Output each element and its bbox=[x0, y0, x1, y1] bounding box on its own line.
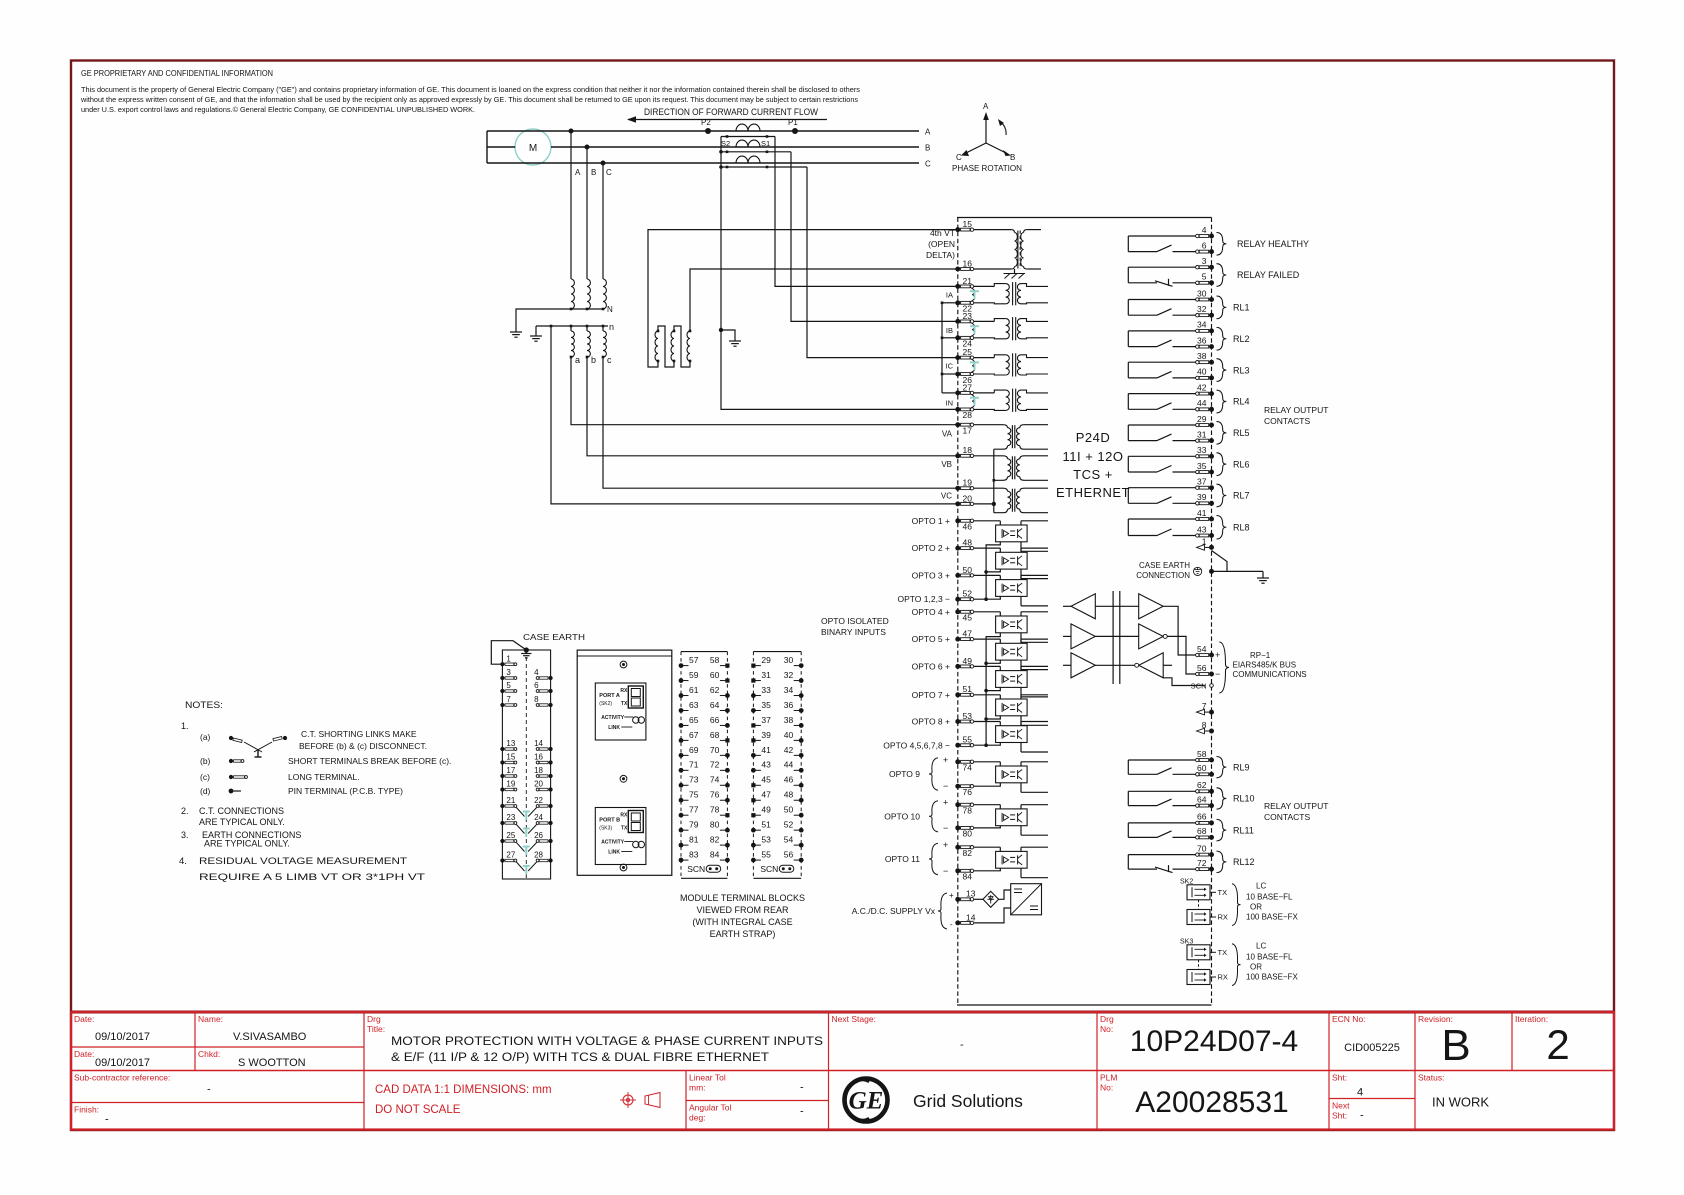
wire opto common stub bbox=[986, 660, 1000, 663]
TB3 terminal 73 bbox=[679, 783, 684, 788]
TB1 terminal 21 bbox=[500, 804, 504, 808]
svg-text:(a): (a) bbox=[200, 732, 211, 742]
node bus C junction bbox=[601, 161, 606, 166]
wire b to terminal 18 bbox=[587, 357, 956, 456]
svg-text:OPTO 3 +: OPTO 3 + bbox=[912, 570, 950, 580]
svg-text:RESIDUAL VOLTAGE MEASUREMENT: RESIDUAL VOLTAGE MEASUREMENT bbox=[199, 856, 407, 867]
wire phase C drop bbox=[602, 163, 604, 279]
opto coupler U8 bbox=[996, 726, 1028, 743]
opto coupler U9 bbox=[996, 766, 1028, 783]
svg-text:6: 6 bbox=[534, 681, 539, 690]
relay contact RELAY HEALTHY bbox=[1128, 235, 1197, 237]
svg-text:TX: TX bbox=[621, 826, 628, 832]
svg-text:57: 57 bbox=[689, 655, 699, 665]
TB3 terminal 78 bbox=[725, 813, 729, 817]
wire n to terminal 20 bbox=[551, 326, 956, 504]
svg-text:A: A bbox=[983, 102, 989, 111]
svg-text:RL4: RL4 bbox=[1233, 397, 1250, 407]
svg-text:1: 1 bbox=[1202, 536, 1207, 546]
svg-text:CASE EARTH: CASE EARTH bbox=[1139, 561, 1190, 570]
svg-text:68: 68 bbox=[1197, 826, 1207, 836]
svg-text:58: 58 bbox=[710, 655, 720, 665]
svg-text:84: 84 bbox=[963, 872, 973, 882]
case earth node bbox=[524, 647, 529, 652]
label RL2 bbox=[1217, 327, 1227, 350]
svg-text:MODULE TERMINAL BLOCKS: MODULE TERMINAL BLOCKS bbox=[680, 893, 805, 903]
svg-text:RL3: RL3 bbox=[1233, 365, 1250, 375]
svg-text:IC: IC bbox=[946, 362, 954, 371]
terminal 29 bbox=[1209, 423, 1214, 428]
svg-text:39: 39 bbox=[761, 730, 771, 740]
relay contact RELAY FAILED bbox=[1128, 266, 1197, 268]
svg-text:−: − bbox=[943, 823, 948, 833]
TB3 terminal 63 bbox=[679, 708, 684, 713]
wire terminal 14 to PSU bbox=[974, 908, 1011, 923]
svg-text:51: 51 bbox=[963, 684, 973, 694]
svg-text:V.SIVASAMBO: V.SIVASAMBO bbox=[233, 1031, 307, 1043]
motor M bbox=[515, 129, 551, 165]
panel screw bbox=[620, 661, 627, 668]
wire open delta W3 top to terminal 16 bbox=[690, 269, 956, 331]
svg-text:TCS +: TCS + bbox=[1073, 467, 1113, 482]
node bus A junction bbox=[569, 129, 574, 134]
svg-text:OPTO 4 +: OPTO 4 + bbox=[912, 607, 950, 617]
svg-text:Next Stage:: Next Stage: bbox=[832, 1014, 876, 1024]
terminal 66 bbox=[1209, 820, 1214, 825]
svg-text:18: 18 bbox=[534, 766, 543, 775]
TB3 terminal 79 bbox=[679, 828, 684, 833]
CT shorting link bbox=[971, 359, 974, 366]
svg-text:Sht:: Sht: bbox=[1332, 1111, 1347, 1121]
terminal 84 bbox=[955, 868, 960, 873]
svg-text:23: 23 bbox=[506, 813, 515, 822]
svg-text:RL11: RL11 bbox=[1233, 825, 1254, 835]
svg-text:NOTES:: NOTES: bbox=[185, 700, 223, 711]
svg-text:15: 15 bbox=[506, 753, 515, 762]
transformer 4th VT input bbox=[974, 229, 1011, 231]
svg-text:46: 46 bbox=[963, 522, 973, 532]
svg-text:-: - bbox=[960, 1039, 964, 1051]
TB3 terminal 77 bbox=[679, 813, 684, 818]
TB4 terminal 32 bbox=[799, 678, 804, 683]
TB1 terminal 25 bbox=[500, 839, 504, 843]
terminal 49 bbox=[955, 664, 960, 669]
svg-text:38: 38 bbox=[1197, 351, 1207, 361]
svg-text:5: 5 bbox=[506, 681, 511, 690]
svg-text:28: 28 bbox=[534, 851, 543, 860]
terminal 30 bbox=[1209, 297, 1214, 302]
svg-text:63: 63 bbox=[689, 700, 699, 710]
svg-text:76: 76 bbox=[963, 787, 973, 797]
svg-text:B: B bbox=[1441, 1021, 1470, 1070]
TB3 terminal 71 bbox=[679, 768, 684, 773]
svg-text:Drg: Drg bbox=[1100, 1014, 1114, 1024]
TB4 terminal 37 bbox=[751, 723, 755, 727]
CT phase A primary bbox=[736, 124, 760, 131]
terminal 58 bbox=[1209, 758, 1214, 763]
svg-text:c: c bbox=[607, 355, 612, 365]
svg-text:100 BASE−FX: 100 BASE−FX bbox=[1246, 972, 1298, 981]
opto coupler U2 bbox=[996, 552, 1028, 569]
svg-text:IA: IA bbox=[946, 291, 953, 300]
svg-text:67: 67 bbox=[689, 730, 699, 740]
terminal 15 bbox=[955, 227, 960, 232]
svg-text:78: 78 bbox=[710, 805, 720, 815]
svg-text:SHORT TERMINALS BREAK BEFORE (: SHORT TERMINALS BREAK BEFORE (c). bbox=[288, 756, 451, 766]
svg-text:DELTA): DELTA) bbox=[926, 250, 955, 260]
svg-text:S2: S2 bbox=[721, 139, 730, 148]
4th VT open delta winding 2 bbox=[671, 331, 674, 361]
transformer VC input bbox=[974, 487, 1003, 489]
svg-text:25: 25 bbox=[506, 831, 515, 840]
terminal 26 bbox=[955, 372, 960, 377]
CT shorting link bbox=[971, 394, 974, 401]
svg-text:RL6: RL6 bbox=[1233, 459, 1250, 469]
svg-text:60: 60 bbox=[1197, 763, 1207, 773]
svg-text:RL12: RL12 bbox=[1233, 857, 1255, 867]
svg-text:19: 19 bbox=[963, 478, 973, 488]
svg-text:29: 29 bbox=[761, 655, 771, 665]
terminal 5 bbox=[1209, 280, 1214, 285]
svg-text:ARE TYPICAL ONLY.: ARE TYPICAL ONLY. bbox=[204, 839, 290, 849]
svg-text:4: 4 bbox=[1202, 225, 1207, 235]
svg-text:OPTO 5 +: OPTO 5 + bbox=[912, 634, 950, 644]
svg-text:-: - bbox=[950, 920, 953, 929]
TB4 terminal 41 bbox=[751, 753, 756, 758]
TB3 terminal 60 bbox=[725, 678, 729, 682]
svg-text:100 BASE−FX: 100 BASE−FX bbox=[1246, 912, 1298, 921]
wire VT secondary common bbox=[993, 449, 995, 513]
svg-text:PORT A: PORT A bbox=[599, 693, 620, 699]
svg-text:under U.S. export control laws: under U.S. export control laws and regul… bbox=[81, 105, 475, 114]
TB3 terminal 57 bbox=[679, 663, 684, 668]
svg-text:BINARY INPUTS: BINARY INPUTS bbox=[821, 627, 886, 637]
svg-text:1.: 1. bbox=[181, 721, 189, 731]
TB4 terminal 34 bbox=[799, 693, 804, 698]
TB3 terminal 67 bbox=[679, 738, 684, 743]
label RL9 bbox=[1217, 757, 1227, 778]
terminal 62 bbox=[1209, 789, 1214, 794]
TB4 terminal 51 bbox=[751, 828, 756, 833]
wire CT C S1 to terminal 25 bbox=[807, 167, 956, 358]
CT S1 terminal C bbox=[766, 166, 769, 169]
svg-text:-: - bbox=[207, 1084, 211, 1096]
svg-text:OPTO 1,2,3 −: OPTO 1,2,3 − bbox=[897, 594, 950, 604]
terminal 42 bbox=[1209, 391, 1214, 396]
svg-text:Date:: Date: bbox=[74, 1014, 94, 1024]
CT S1 terminal A bbox=[766, 135, 769, 138]
relay contact RL8 bbox=[1128, 518, 1197, 520]
svg-text:34: 34 bbox=[1197, 320, 1207, 330]
TB3 terminal 59 bbox=[679, 678, 684, 683]
svg-text:DO NOT SCALE: DO NOT SCALE bbox=[375, 1104, 461, 1116]
terminal 8 bbox=[1209, 729, 1214, 734]
TB3 terminal 74 bbox=[725, 783, 730, 788]
wire open delta W1 bottom to terminal 15 bbox=[648, 230, 956, 367]
svg-text:+: + bbox=[943, 755, 948, 765]
device right rail bbox=[1211, 218, 1213, 1006]
wire T5 to terminal 56 bbox=[1167, 636, 1197, 674]
svg-text:16: 16 bbox=[534, 753, 543, 762]
svg-text:54: 54 bbox=[1197, 644, 1207, 654]
opto coupler U11 bbox=[996, 851, 1028, 868]
svg-text:+: + bbox=[943, 840, 948, 850]
label RL10 bbox=[1217, 788, 1227, 809]
svg-text:Date:: Date: bbox=[74, 1049, 94, 1059]
module front panel bbox=[577, 650, 672, 875]
svg-text:-: - bbox=[105, 1114, 109, 1126]
svg-text:CONTACTS: CONTACTS bbox=[1264, 812, 1310, 822]
svg-text:OPTO 9: OPTO 9 bbox=[889, 769, 920, 779]
relay contact RL5 bbox=[1128, 424, 1197, 426]
wire bus phase C bbox=[487, 162, 919, 164]
svg-text:74: 74 bbox=[963, 763, 973, 773]
svg-text:3.: 3. bbox=[181, 830, 189, 840]
svg-text:4: 4 bbox=[534, 668, 539, 677]
svg-text:45: 45 bbox=[963, 613, 973, 623]
terminal 39 bbox=[1209, 501, 1214, 506]
wire opto 1-3 common bbox=[974, 542, 1001, 599]
wire opto9 return bbox=[974, 783, 1001, 786]
svg-text:55: 55 bbox=[963, 735, 973, 745]
svg-text:OPTO 6 +: OPTO 6 + bbox=[912, 661, 950, 671]
TB3 terminal 83 bbox=[679, 858, 684, 863]
TB3 terminal 82 bbox=[725, 843, 730, 848]
svg-text:RX: RX bbox=[1218, 973, 1228, 982]
comms buffer T4 bbox=[1139, 594, 1164, 619]
svg-text:31: 31 bbox=[761, 670, 771, 680]
svg-text:B: B bbox=[925, 144, 930, 153]
svg-text:-: - bbox=[800, 1082, 804, 1094]
svg-text:PHASE ROTATION: PHASE ROTATION bbox=[952, 164, 1022, 173]
svg-text:OPTO 2 +: OPTO 2 + bbox=[912, 543, 950, 553]
svg-text:A: A bbox=[925, 128, 931, 137]
terminal 17 bbox=[955, 422, 960, 427]
transformer IN input bbox=[974, 392, 995, 394]
svg-text:40: 40 bbox=[784, 730, 794, 740]
svg-text:+: + bbox=[1215, 650, 1220, 660]
terminal 14 bbox=[955, 920, 960, 925]
svg-text:REQUIRE A 5 LIMB VT OR 3: REQUIRE A 5 LIMB VT OR 3*1PH VT bbox=[199, 872, 425, 883]
TB1 terminal 1 bbox=[500, 662, 504, 666]
CT S2 terminal C bbox=[726, 166, 729, 169]
node bus B junction bbox=[585, 145, 590, 150]
panel screw bbox=[620, 775, 627, 782]
svg-text:80: 80 bbox=[963, 829, 973, 839]
svg-text:36: 36 bbox=[1197, 335, 1207, 345]
svg-text:LONG TERMINAL.: LONG TERMINAL. bbox=[288, 772, 360, 782]
svg-text:ACTIVITY: ACTIVITY bbox=[601, 840, 624, 846]
TB1 terminal 27 bbox=[500, 858, 504, 862]
TB3 terminal 61 bbox=[679, 693, 684, 698]
svg-text:M: M bbox=[529, 143, 537, 154]
label RL12 bbox=[1217, 851, 1227, 873]
svg-text:A: A bbox=[575, 168, 581, 177]
svg-text:53: 53 bbox=[963, 711, 973, 721]
svg-text:Title:: Title: bbox=[367, 1024, 385, 1034]
4th VT open delta winding 3 bbox=[687, 331, 690, 361]
terminal 22 bbox=[955, 300, 960, 305]
svg-text:4.: 4. bbox=[179, 856, 187, 867]
svg-text:50: 50 bbox=[784, 805, 794, 815]
label RP-1 comms bbox=[1219, 642, 1229, 693]
svg-text:(SK2): (SK2) bbox=[599, 701, 612, 707]
svg-text:47: 47 bbox=[761, 790, 771, 800]
TB1 terminal 22 bbox=[549, 804, 553, 808]
svg-text:-: - bbox=[1360, 1110, 1364, 1122]
svg-text:2.: 2. bbox=[181, 806, 189, 816]
svg-text:SK2: SK2 bbox=[1180, 878, 1193, 885]
relay contact RL6 bbox=[1128, 455, 1197, 457]
svg-text:ARE TYPICAL ONLY.: ARE TYPICAL ONLY. bbox=[199, 817, 285, 827]
TB4 terminal 31 bbox=[751, 678, 755, 682]
title block grid bbox=[71, 1070, 1614, 1072]
svg-text:71: 71 bbox=[689, 760, 699, 770]
relay contact RL1 bbox=[1128, 299, 1197, 301]
svg-text:3: 3 bbox=[1202, 256, 1207, 266]
device box bottom bbox=[957, 1004, 1212, 1006]
svg-text:83: 83 bbox=[689, 849, 699, 859]
wire opto3 common stub bbox=[986, 596, 1000, 599]
TB1 terminal 24 bbox=[549, 821, 553, 825]
svg-text:RL7: RL7 bbox=[1233, 491, 1250, 501]
CT shorting link bbox=[971, 323, 974, 330]
svg-text:3: 3 bbox=[506, 668, 511, 677]
wire N to ground bbox=[516, 309, 571, 332]
VT secondary coil c bbox=[602, 326, 604, 331]
svg-text:64: 64 bbox=[1197, 794, 1207, 804]
svg-text:C.T. SHORTING LINKS MAKE: C.T. SHORTING LINKS MAKE bbox=[301, 729, 417, 739]
svg-text:27: 27 bbox=[963, 382, 973, 392]
svg-text:44: 44 bbox=[784, 760, 794, 770]
VT primary coil A bbox=[571, 279, 574, 309]
svg-text:C: C bbox=[606, 168, 612, 177]
svg-text:Finish:: Finish: bbox=[74, 1105, 99, 1115]
svg-text:58: 58 bbox=[1197, 749, 1207, 759]
terminal 16 bbox=[955, 267, 960, 272]
terminal 28 bbox=[955, 407, 960, 412]
svg-text:13: 13 bbox=[966, 889, 976, 899]
terminal 1 bbox=[1209, 545, 1214, 550]
svg-text:37: 37 bbox=[1197, 477, 1207, 487]
svg-text:17: 17 bbox=[506, 766, 515, 775]
svg-text:60: 60 bbox=[710, 670, 720, 680]
svg-text:65: 65 bbox=[689, 715, 699, 725]
TB1 terminal 17 bbox=[500, 774, 504, 778]
terminal 6 bbox=[1209, 249, 1214, 254]
svg-text:66: 66 bbox=[710, 715, 720, 725]
svg-text:OPTO ISOLATED: OPTO ISOLATED bbox=[821, 616, 889, 626]
wire CT A S1 to terminal 21 bbox=[775, 137, 956, 287]
TB4 terminal 29 bbox=[751, 664, 755, 668]
svg-text:16: 16 bbox=[963, 258, 973, 268]
svg-text:22: 22 bbox=[534, 796, 543, 805]
svg-text:48: 48 bbox=[963, 538, 973, 548]
CT B secondary wire bbox=[721, 151, 791, 153]
comms buffer T6 bbox=[1139, 653, 1164, 678]
svg-text:This document is the property: This document is the property of General… bbox=[81, 85, 860, 94]
TB1 terminal 23 bbox=[500, 821, 504, 825]
svg-text:ECN No:: ECN No: bbox=[1332, 1014, 1366, 1024]
TB1 terminal 4 bbox=[549, 676, 553, 680]
title block top edge bbox=[70, 1011, 1614, 1014]
svg-text:21: 21 bbox=[506, 796, 515, 805]
terminal block TB3 outline bbox=[681, 651, 727, 653]
terminal 48 bbox=[955, 546, 960, 551]
svg-text:56: 56 bbox=[784, 849, 794, 859]
wire T6 to SCN bbox=[1163, 678, 1205, 686]
svg-text:52: 52 bbox=[963, 589, 973, 599]
svg-text:75: 75 bbox=[689, 790, 699, 800]
terminal 45 bbox=[955, 609, 960, 614]
svg-text:42: 42 bbox=[784, 745, 794, 755]
wire T4 to terminal 54 bbox=[1163, 606, 1197, 655]
svg-text:(SK3): (SK3) bbox=[599, 826, 612, 832]
svg-text:PLM: PLM bbox=[1100, 1073, 1117, 1083]
svg-text:10 BASE−FL: 10 BASE−FL bbox=[1246, 952, 1293, 961]
wire phase A drop bbox=[570, 131, 572, 279]
VT primary coil B bbox=[587, 279, 590, 309]
svg-text:59: 59 bbox=[689, 670, 699, 680]
TB3 terminal 84 bbox=[725, 858, 730, 863]
svg-text:P1: P1 bbox=[788, 118, 798, 127]
svg-text:TX: TX bbox=[1218, 888, 1228, 897]
svg-text:21: 21 bbox=[963, 276, 973, 286]
wire CT star bus bbox=[941, 303, 943, 393]
4th VT core earth bbox=[1014, 269, 1016, 274]
transformer VB input bbox=[974, 455, 1003, 457]
svg-text:81: 81 bbox=[689, 835, 699, 845]
svg-text:RX: RX bbox=[1218, 913, 1228, 922]
TB4 terminal 44 bbox=[799, 768, 804, 773]
svg-text:61: 61 bbox=[689, 685, 699, 695]
svg-text:Chkd:: Chkd: bbox=[198, 1049, 220, 1059]
bridge rectifier bbox=[974, 898, 983, 900]
title block outline bbox=[71, 1012, 1614, 1130]
svg-text:84: 84 bbox=[710, 849, 720, 859]
svg-text:ETHERNET: ETHERNET bbox=[1056, 485, 1130, 500]
svg-text:IN WORK: IN WORK bbox=[1432, 1095, 1489, 1110]
svg-text:C.T. CONNECTIONS: C.T. CONNECTIONS bbox=[199, 806, 284, 816]
terminal 76 bbox=[955, 784, 960, 789]
svg-text:10 BASE−FL: 10 BASE−FL bbox=[1246, 892, 1293, 901]
CT S2 terminal A bbox=[726, 135, 729, 138]
opto coupler U10 bbox=[996, 809, 1028, 826]
TB4 terminal 52 bbox=[799, 828, 804, 833]
svg-text:30: 30 bbox=[1197, 288, 1207, 298]
svg-text:OPTO 1 +: OPTO 1 + bbox=[912, 516, 950, 526]
svg-text:VC: VC bbox=[941, 491, 952, 500]
terminal 4 bbox=[1209, 234, 1214, 239]
svg-text:deg:: deg: bbox=[689, 1113, 706, 1123]
relay contact RL10 bbox=[1128, 790, 1197, 792]
CT shorting link bbox=[971, 288, 974, 295]
terminal 64 bbox=[1209, 803, 1214, 808]
svg-text:P2: P2 bbox=[701, 118, 711, 127]
terminal 36 bbox=[1209, 344, 1214, 349]
GE logo bbox=[845, 1079, 888, 1122]
terminal SCN bbox=[1210, 684, 1214, 688]
svg-text:GE PROPRIETARY AND CONFIDENTIA: GE PROPRIETARY AND CONFIDENTIAL INFORMAT… bbox=[81, 69, 273, 78]
svg-text:EARTH STRAP): EARTH STRAP) bbox=[710, 929, 776, 939]
VT primary coil C bbox=[603, 279, 606, 309]
power supply unit bbox=[1011, 884, 1042, 915]
svg-text:−: − bbox=[943, 866, 948, 876]
svg-text:45: 45 bbox=[761, 775, 771, 785]
terminal 72 bbox=[1209, 867, 1214, 872]
svg-text:OPTO 10: OPTO 10 bbox=[884, 811, 920, 821]
svg-text:VB: VB bbox=[941, 460, 952, 469]
